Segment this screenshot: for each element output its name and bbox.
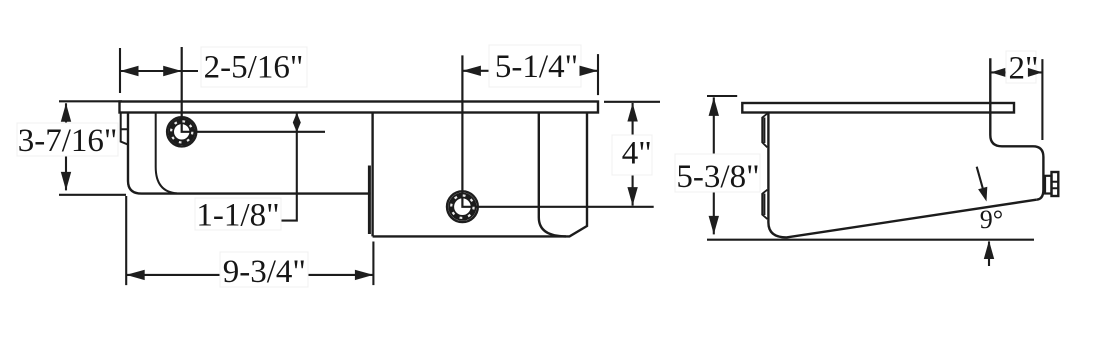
svg-text:1-1/8": 1-1/8" <box>196 197 279 233</box>
svg-text:3-7/16": 3-7/16" <box>18 123 118 159</box>
svg-text:9°: 9° <box>980 205 1003 234</box>
svg-text:5-3/8": 5-3/8" <box>676 159 759 195</box>
svg-text:4": 4" <box>622 136 652 172</box>
svg-text:5-1/4": 5-1/4" <box>495 49 578 85</box>
svg-text:2-5/16": 2-5/16" <box>204 50 304 86</box>
svg-text:9-3/4": 9-3/4" <box>223 254 306 290</box>
svg-text:2": 2" <box>1009 51 1039 87</box>
